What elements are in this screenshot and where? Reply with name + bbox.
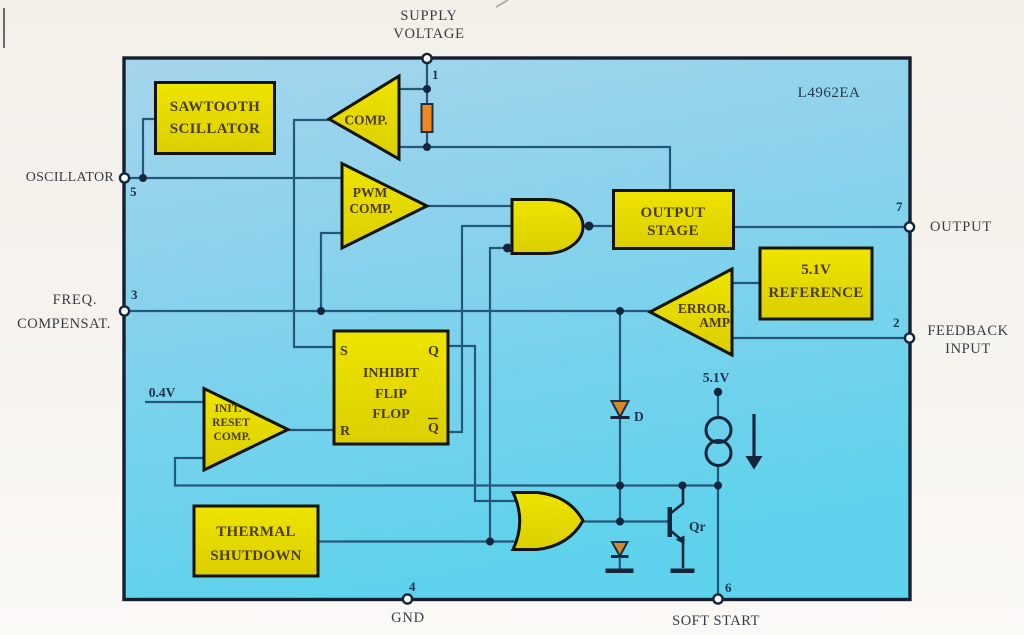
svg-text:Q: Q [428, 421, 439, 436]
wire: oscillator line pin 5 to PWM comp [127, 177, 342, 179]
svg-text:L4962EA: L4962EA [798, 85, 861, 101]
svg-text:4: 4 [409, 579, 416, 594]
svg-text:Qr: Qr [689, 519, 706, 534]
svg-text:COMPENSAT.: COMPENSAT. [17, 316, 111, 332]
AND gate [512, 200, 583, 254]
svg-text:AMP: AMP [699, 315, 730, 330]
pin 6 soft start terminal [713, 594, 722, 603]
wire: flip-flop Qbar to AND gate middle input [448, 226, 512, 432]
node: PWM lower input junction on freq line [317, 307, 325, 315]
page edge artifact line [3, 8, 5, 48]
svg-text:GND: GND [391, 610, 425, 626]
wire: resistor bottom segment [426, 132, 428, 148]
wire: output stage to pin 7 [734, 226, 906, 228]
node: current source rail junction [714, 482, 722, 490]
wire: comp upper input [399, 88, 427, 90]
svg-text:1: 1 [432, 67, 439, 82]
pin 2 feedback terminal [905, 333, 914, 342]
svg-text:PWM: PWM [353, 185, 388, 200]
transistor Qr [668, 488, 685, 568]
svg-text:5: 5 [130, 184, 137, 199]
top margin artifact mark [496, 0, 508, 7]
svg-text:SOFT START: SOFT START [672, 613, 760, 629]
inhibit flip flop block [334, 331, 448, 444]
wire: init reset comp lower input long rail [175, 458, 718, 486]
svg-text:VOLTAGE: VOLTAGE [393, 26, 465, 42]
svg-text:INHIBIT: INHIBIT [363, 366, 420, 381]
error amplifier [650, 269, 732, 355]
comparator COMP U1 [329, 76, 399, 159]
svg-text:SCILLATOR: SCILLATOR [170, 121, 261, 137]
wire: diode D cathode down to rail [619, 418, 621, 522]
wire: supply pin 1 drop to resistor [426, 60, 428, 104]
node: diode branch junction on freq line [616, 307, 624, 315]
wire: OR gate output to transistor base [583, 520, 668, 522]
wire: sawtooth oscillator to pin 5 riser [143, 119, 156, 178]
svg-text:COMP.: COMP. [349, 201, 392, 216]
wire: thermal shutdown output to OR gate lower input [318, 540, 516, 542]
wire: PWM comp lower input riser [321, 233, 342, 311]
wire: error amp lower input to pin 2 [732, 337, 906, 339]
svg-text:RESET: RESET [212, 417, 250, 429]
diode D2 at transistor base [611, 542, 629, 569]
svg-text:COMP.: COMP. [214, 431, 251, 443]
node: 5.1V net dot [714, 388, 722, 396]
svg-text:INIT.: INIT. [215, 403, 242, 415]
wire: init reset comp output to flip-flop R input [288, 429, 334, 431]
pin 1 supply voltage terminal [422, 54, 431, 63]
pin 3 freq compensation terminal [120, 306, 129, 315]
wire: rail to soft start pin 6 [717, 486, 719, 599]
wire: flip-flop Q to OR gate top input [448, 346, 516, 501]
svg-text:OUTPUT: OUTPUT [930, 219, 992, 235]
resistor R1 [422, 104, 433, 132]
wire: comp output to flip-flop S input [294, 120, 334, 347]
OR gate [513, 493, 583, 550]
node: AND gate lower input junction [503, 244, 512, 253]
svg-text:FLIP: FLIP [375, 387, 407, 402]
PWM comparator [342, 164, 427, 249]
ground bar under transistor emitter [671, 569, 695, 574]
svg-text:SAWTOOTH: SAWTOOTH [170, 99, 260, 115]
init reset comparator [204, 389, 288, 471]
wire: diode D branch from freq line to base line [619, 311, 621, 401]
svg-text:STAGE: STAGE [647, 223, 699, 239]
svg-text:ERROR.: ERROR. [678, 301, 730, 316]
svg-text:3: 3 [131, 287, 138, 302]
wire: 0.4V input to init reset comp [145, 401, 204, 403]
svg-text:S: S [340, 344, 348, 359]
current source I1 [706, 418, 731, 466]
svg-text:REFERENCE: REFERENCE [768, 285, 863, 301]
node: resistor top junction [423, 85, 431, 93]
svg-text:6: 6 [725, 580, 732, 595]
node: thermal line junction [486, 538, 494, 546]
node: resistor bottom junction [423, 143, 431, 151]
svg-text:FREQ.: FREQ. [53, 292, 98, 308]
wire: PWM comp output to AND gate [427, 205, 512, 207]
wire: comp lower input [399, 146, 427, 148]
svg-text:OUTPUT: OUTPUT [641, 205, 706, 221]
current direction arrow [746, 414, 763, 470]
svg-text:D: D [634, 409, 644, 424]
svg-text:FEEDBACK: FEEDBACK [927, 323, 1008, 339]
svg-text:2: 2 [893, 315, 900, 330]
sawtooth oscillator block [156, 83, 275, 154]
wire: current source bottom to rail [717, 465, 719, 486]
svg-text:Q: Q [428, 344, 439, 359]
output stage block [614, 191, 734, 249]
thermal shutdown block [194, 506, 318, 576]
wire: AND gate lower input from thermal line [490, 248, 507, 542]
wire: resistor rail to output stage top [427, 147, 670, 190]
svg-text:R: R [340, 424, 351, 439]
node: base line junction [616, 518, 624, 526]
node: collector rail junction [679, 482, 687, 490]
svg-text:5.1V: 5.1V [703, 370, 730, 385]
wire: error amp upper input to reference [732, 282, 760, 284]
svg-text:SHUTDOWN: SHUTDOWN [210, 548, 302, 564]
wire: 5.1V node to current source [717, 394, 719, 418]
diode D [611, 401, 630, 418]
svg-text:0.4V: 0.4V [149, 385, 176, 400]
svg-text:SUPPLY: SUPPLY [400, 8, 457, 24]
svg-text:FLOP: FLOP [372, 407, 410, 422]
svg-text:OSCILLATOR: OSCILLATOR [26, 170, 115, 185]
svg-text:7: 7 [896, 199, 903, 214]
wire: freq compensation line pin 3 to error amp [127, 310, 650, 312]
pin 5 oscillator terminal [120, 173, 129, 182]
5.1V reference block [760, 248, 872, 319]
svg-text:5.1V: 5.1V [801, 262, 831, 278]
node: AND gate output junction [585, 222, 594, 231]
pin 7 output terminal [905, 222, 914, 231]
node: oscillator riser junction [139, 174, 147, 182]
IC boundary box [124, 58, 910, 600]
svg-text:INPUT: INPUT [945, 341, 991, 357]
svg-text:COMP.: COMP. [344, 113, 387, 128]
wire: AND gate output to output stage [584, 225, 614, 227]
pin 4 ground terminal [403, 594, 412, 603]
node: diode rail junction [616, 482, 624, 490]
ground bar under diode D2 [606, 569, 634, 574]
svg-text:THERMAL: THERMAL [216, 524, 296, 540]
